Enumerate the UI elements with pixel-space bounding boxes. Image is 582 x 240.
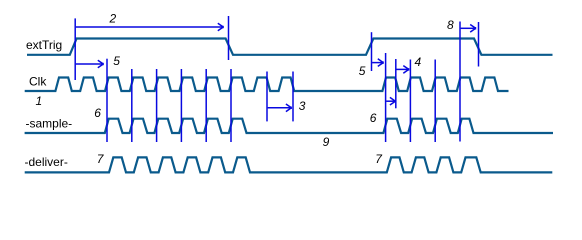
svg-text:5: 5 — [359, 64, 366, 78]
svg-text:4: 4 — [415, 55, 422, 69]
wave Clk — [25, 78, 509, 92]
clock edge line 4 section 1 — [180, 69, 182, 142]
arrow for measure 5 section 1 — [76, 60, 104, 68]
marker line at extTrig fall 2 — [478, 22, 480, 67]
svg-text:-deliver-: -deliver- — [25, 155, 68, 169]
arrow clock to sample delay — [386, 97, 396, 105]
clock edge line 5 section 1 — [205, 69, 207, 142]
clock edge line 2 section 1 — [131, 69, 133, 142]
arrow for measure 2 — [76, 23, 224, 31]
wave -deliver- — [25, 157, 553, 172]
svg-text:2: 2 — [109, 11, 117, 25]
marker line at extTrig rise 2 — [371, 32, 373, 71]
sample delay line section 2 — [395, 59, 397, 108]
marker line at extTrig rise 1 — [74, 18, 76, 80]
svg-text:3: 3 — [299, 99, 306, 113]
wave extTrig — [27, 39, 553, 55]
clock edge line 4 section 2 and measure 8 left line — [459, 22, 461, 142]
arrow for measure 8 — [461, 25, 477, 33]
svg-text:8: 8 — [447, 18, 454, 32]
clock edge line 1 section 2 — [385, 53, 387, 142]
clock edge line 3 section 2 — [434, 60, 436, 143]
arrow trigger to clock section 2 — [372, 59, 384, 67]
svg-text:Clk: Clk — [29, 74, 47, 88]
svg-text:7: 7 — [375, 152, 383, 166]
clock edge line 3 section 1 — [156, 69, 158, 142]
clock edge line 6 section 1 — [230, 69, 232, 142]
clock edge line 1 section 1 — [106, 59, 108, 142]
svg-text:-sample-: -sample- — [26, 116, 73, 130]
svg-text:5: 5 — [113, 54, 120, 68]
svg-text:6: 6 — [94, 106, 101, 120]
clock edge line 2 section 2 — [409, 60, 411, 143]
svg-text:1: 1 — [36, 94, 43, 108]
arrow for measure 3 — [268, 104, 292, 112]
svg-text:extTrig: extTrig — [26, 38, 62, 52]
marker line at extTrig fall 1 — [228, 16, 230, 60]
measure 3 right line — [292, 72, 294, 122]
arrow for measure 4 — [396, 66, 409, 74]
svg-text:6: 6 — [370, 111, 377, 125]
svg-text:9: 9 — [323, 135, 330, 149]
measure 3 left line — [266, 72, 268, 122]
svg-text:7: 7 — [97, 152, 105, 166]
wave -sample- — [25, 119, 553, 133]
